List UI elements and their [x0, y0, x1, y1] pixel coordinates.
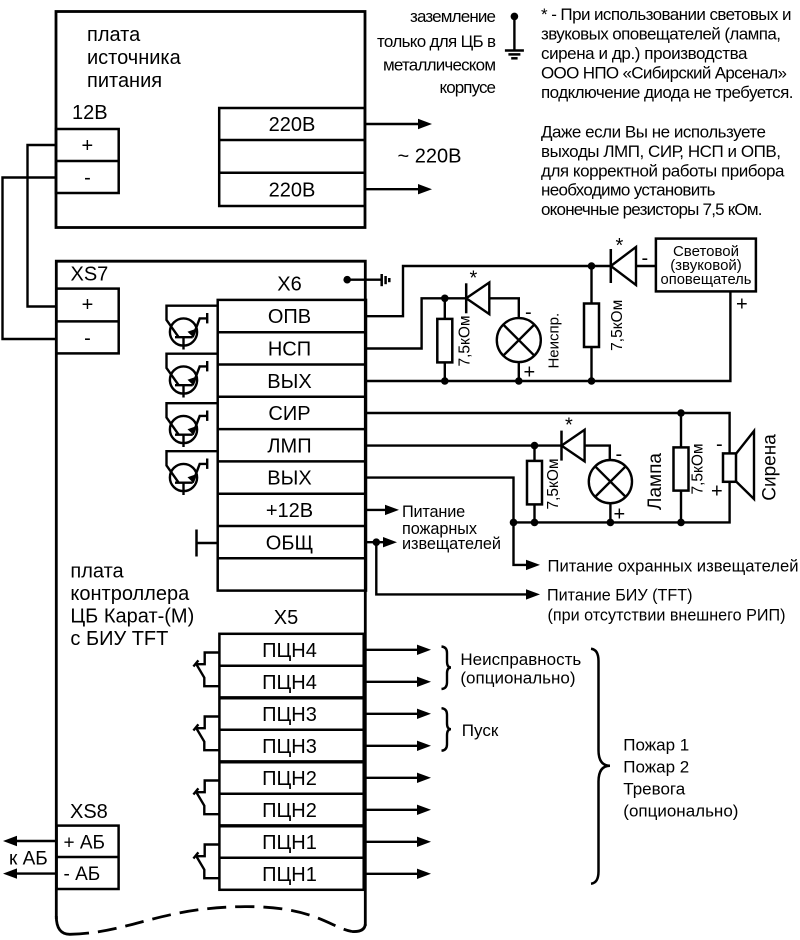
relay contact K2 [193, 781, 219, 815]
node lamp1 bottom [515, 377, 523, 385]
svg-text:ПЦН2: ПЦН2 [262, 768, 317, 790]
svg-text:7,5кОм: 7,5кОм [690, 443, 707, 494]
arrow Питание охранных [526, 560, 540, 570]
node R1 top [441, 295, 449, 303]
svg-text:с БИУ TFT: с БИУ TFT [70, 628, 168, 650]
wire ОПВ to diode line [366, 266, 656, 316]
svg-text:Лампа: Лампа [645, 453, 666, 510]
svg-text:+12В: +12В [266, 500, 313, 522]
controller board outline [56, 261, 365, 926]
svg-text:-: - [716, 434, 723, 456]
svg-text:СИР: СИР [268, 403, 310, 425]
svg-text:контроллера: контроллера [70, 583, 190, 605]
resistor R4 7,5кОм [674, 413, 689, 522]
svg-text:Питание БИУ (TFT): Питание БИУ (TFT) [547, 585, 693, 604]
svg-text:-: - [84, 167, 91, 189]
arrow ПЦН1a [364, 841, 419, 843]
pin labels Х5 [262, 640, 317, 886]
annunciator box Световой (звуковой) оповещатель [656, 239, 756, 292]
transistor Q2 [167, 354, 218, 398]
svg-text:плата: плата [87, 24, 141, 46]
svg-text:ЦБ Карат-(М): ЦБ Карат-(М) [70, 606, 194, 628]
node R1 bottom [441, 377, 449, 385]
svg-text:сирена и др.) производства: сирена и др.) производства [541, 44, 748, 63]
svg-text:оповещатель: оповещатель [661, 271, 752, 288]
svg-text:(опционально): (опционально) [623, 802, 738, 821]
arrow to battery + [15, 840, 57, 842]
svg-text:звуковых оповещателей (лампа,: звуковых оповещателей (лампа, [541, 25, 781, 44]
svg-text:(опционально): (опционально) [460, 669, 575, 688]
wire СИР line to siren [366, 413, 730, 453]
svg-text:220В: 220В [269, 114, 316, 136]
svg-text:+ АБ: + АБ [64, 832, 106, 853]
svg-text:ПЦН4: ПЦН4 [262, 640, 317, 662]
brace Пуск [442, 708, 452, 751]
power supply board outline [56, 12, 365, 228]
svg-text:ПЦН2: ПЦН2 [262, 800, 317, 822]
svg-text:питания: питания [87, 70, 162, 92]
terminal block XS7 [56, 289, 118, 354]
svg-text:7,5кОм: 7,5кОм [545, 458, 562, 509]
big brace Пожар/Тревога [591, 649, 610, 884]
terminal strip Х6 [218, 300, 366, 591]
node corner [510, 519, 518, 527]
wire to chassis ground [347, 279, 381, 281]
svg-text:-: - [642, 248, 649, 270]
terminal block 220В [219, 108, 365, 206]
svg-text:подключение диода не требуется: подключение диода не требуется. [541, 83, 794, 102]
node R4 top [677, 409, 685, 417]
transistor Q1 [167, 306, 218, 350]
arrow +12В [366, 509, 387, 511]
node R3 bottom [531, 519, 539, 527]
svg-text:+: + [736, 294, 748, 316]
svg-text:Тревога: Тревога [623, 780, 685, 799]
svg-text:ПЦН3: ПЦН3 [262, 736, 317, 758]
label Питание пожарных извещателей [402, 503, 501, 553]
svg-text:ОПВ: ОПВ [268, 306, 311, 328]
svg-text:-: - [525, 302, 532, 324]
arrow ПЦН4a [364, 649, 419, 651]
diode VD1 [611, 247, 636, 285]
svg-text:7,5кОм: 7,5кОм [457, 315, 474, 366]
svg-text:XS8: XS8 [70, 801, 108, 823]
svg-text:только для ЦБ в: только для ЦБ в [377, 32, 496, 51]
svg-text:*: * [565, 415, 573, 437]
wire ВЫХ common line to annunciator + [366, 291, 730, 381]
node lamp2 bottom [607, 519, 615, 527]
wire - from 12В to XS7 [3, 178, 57, 340]
node R2 bottom [588, 377, 596, 385]
svg-text:Питание: Питание [402, 503, 465, 521]
terminal block 12В [56, 129, 119, 193]
svg-text:XS7: XS7 [71, 264, 109, 286]
svg-text:Неиспр.: Неиспр. [546, 313, 563, 369]
svg-text:плата: плата [70, 561, 124, 583]
svg-text:*: * [470, 268, 478, 290]
svg-text:- АБ: - АБ [64, 864, 101, 885]
svg-text:12В: 12В [72, 102, 108, 124]
svg-text:+: + [82, 294, 94, 316]
svg-text:ВЫХ: ВЫХ [267, 371, 311, 393]
wire ЛМП to diode/lamp2 [366, 446, 610, 461]
svg-text:оконечные резисторы 7,5 кОм.: оконечные резисторы 7,5 кОм. [541, 200, 763, 219]
arrow 220В bottom [365, 188, 420, 190]
svg-text:металлическом: металлическом [383, 56, 496, 75]
lamp Лампа [589, 460, 632, 522]
common terminal symbol at ОБЩ [195, 530, 198, 557]
arrow 220В top [365, 123, 420, 125]
earth ground symbol [505, 13, 524, 59]
label Пожар 1 Пожар 2 Тревога (опционально) [623, 736, 738, 821]
label: плата контроллера ЦБ Карат-(М) с БИУ TFT [70, 561, 194, 651]
wire ВЫХ2 to common bottom line [366, 478, 529, 565]
svg-text:корпусе: корпусе [440, 78, 497, 97]
resistor R3 7,5кОм [527, 446, 542, 523]
relay contact K3 [193, 717, 219, 751]
label: плата источника питания [87, 24, 182, 92]
wire ОБЩ arrow [366, 541, 385, 543]
arrow to battery - [15, 872, 57, 874]
terminal block XS8 [57, 826, 119, 889]
svg-text:* - При использовании световых: * - При использовании световых и [541, 5, 792, 24]
svg-text:+: + [82, 135, 94, 157]
svg-text:Х6: Х6 [277, 274, 301, 296]
node R3 top [531, 442, 539, 450]
arrow ПЦН1b [364, 873, 419, 875]
svg-text:НСП: НСП [268, 339, 311, 361]
svg-text:выходы ЛМП, СИР, НСП и ОПВ,: выходы ЛМП, СИР, НСП и ОПВ, [541, 142, 781, 161]
note: заземление только для ЦБ в металлическом корпусе [377, 7, 496, 97]
svg-text:ОБЩ: ОБЩ [266, 532, 313, 554]
diode VD2 [466, 283, 489, 315]
svg-text:ПЦН1: ПЦН1 [262, 832, 317, 854]
diode VD3 [562, 430, 585, 462]
arrow ПЦН3b [364, 745, 419, 747]
svg-text:Пожар 1: Пожар 1 [623, 736, 689, 755]
svg-text:ООО НПО «Сибирский Арсенал»: ООО НПО «Сибирский Арсенал» [541, 63, 787, 82]
svg-text:ПЦН4: ПЦН4 [262, 672, 317, 694]
node on ОПВ line [588, 262, 596, 270]
svg-text:заземление: заземление [410, 7, 496, 26]
arrow ПЦН2b [364, 809, 419, 811]
svg-text:+: + [711, 481, 723, 503]
svg-text:Пуск: Пуск [462, 721, 499, 740]
resistor R2 7,5кОм [584, 266, 599, 381]
chassis ground symbol [382, 274, 390, 286]
svg-text:ПЦН1: ПЦН1 [262, 864, 317, 886]
resistor R1 7,5кОм [437, 298, 452, 381]
note paragraph 1 [541, 5, 794, 102]
relay contact K1 [193, 845, 219, 879]
transistor Q4 [167, 451, 218, 495]
svg-text:Сирена: Сирена [760, 434, 781, 501]
svg-text:220В: 220В [269, 179, 316, 201]
svg-text:необходимо установить: необходимо установить [541, 181, 716, 200]
lamp Неиспр. [497, 318, 541, 381]
terminal strip Х5 [219, 634, 363, 890]
svg-text:Неисправность: Неисправность [460, 650, 581, 669]
svg-text:Х5: Х5 [274, 607, 298, 629]
controller board dashed bottom edge [70, 907, 352, 935]
node R4 bottom [677, 519, 685, 527]
note paragraph 2 [541, 123, 785, 219]
svg-text:Даже если Вы не используете: Даже если Вы не используете [541, 123, 766, 142]
svg-text:Питание охранных извещателей: Питание охранных извещателей [548, 556, 799, 575]
svg-text:Пожар 2: Пожар 2 [623, 758, 689, 777]
svg-text:7,5кОм: 7,5кОм [609, 300, 626, 351]
wire НСП to diode/lamp line [366, 298, 519, 348]
svg-text:-: - [84, 328, 91, 350]
pin labels Х6 [266, 306, 313, 554]
node ОБЩ [373, 538, 381, 546]
arrow ПЦН3a [364, 713, 419, 715]
bottom common line of lamp2 circuit [514, 482, 730, 523]
svg-text:извещателей: извещателей [402, 535, 501, 553]
svg-text:ПЦН3: ПЦН3 [262, 704, 317, 726]
transistor Q3 [167, 403, 218, 447]
brace Неисправность [442, 647, 452, 690]
svg-text:источника: источника [87, 47, 182, 69]
svg-text:ВЫХ: ВЫХ [267, 468, 311, 490]
svg-text:ЛМП: ЛМП [267, 435, 311, 457]
svg-text:для корректной работы прибора: для корректной работы прибора [541, 161, 785, 180]
arrow ПЦН4b [364, 681, 419, 683]
speaker Сирена [723, 431, 754, 499]
svg-text:*: * [616, 235, 624, 257]
arrow ПЦН2a [364, 777, 419, 779]
svg-text:к АБ: к АБ [9, 848, 48, 869]
node: junction to chassis [343, 276, 351, 284]
wire ОБЩ to БИУ arrow [376, 542, 529, 594]
relay contact K4 [193, 653, 219, 687]
svg-text:(при отсутствии внешнего РИП): (при отсутствии внешнего РИП) [548, 605, 786, 624]
svg-text:~ 220В: ~ 220В [398, 146, 462, 168]
svg-text:-: - [616, 444, 623, 466]
wire + from 12В to XS7 [28, 145, 57, 307]
